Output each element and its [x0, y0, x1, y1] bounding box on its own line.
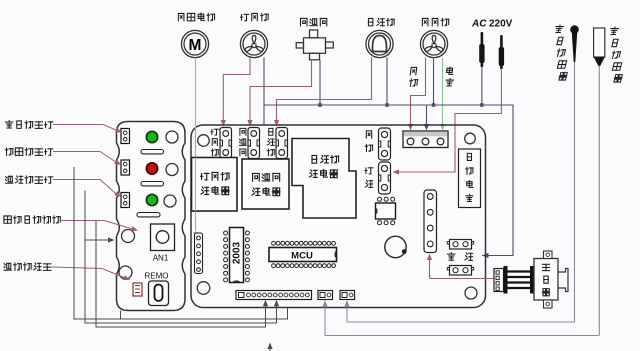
wire: forced-start signal	[96, 221, 266, 328]
LED timer (green)	[146, 131, 157, 142]
hole row2	[166, 164, 178, 176]
wire: green indoor fan capacitor to terminal block	[442, 58, 444, 125]
pipe temperature sensor probe	[594, 28, 605, 57]
wire: red outdoor fan to connector CN1	[223, 58, 250, 121]
vertical header (power)	[424, 190, 437, 253]
wire: red indoor fan live to terminal block	[411, 58, 426, 125]
connector CN2 四通阀 with label	[240, 128, 246, 135]
buzzer	[385, 236, 406, 257]
wire: room sensor return to connector B	[347, 301, 575, 322]
transformer right bracket	[558, 269, 568, 292]
label: 风机 vertical	[410, 67, 417, 74]
indoor fan icon 内风机	[420, 30, 447, 57]
connector CN3 压缩机 with label	[269, 128, 273, 135]
wire: navy bus drop to terminal block	[426, 105, 428, 125]
transformer winding bars	[504, 266, 508, 294]
bottom long header	[236, 291, 312, 300]
transformer bottom tab	[544, 300, 553, 308]
display board outline (scalloped)	[117, 122, 186, 311]
hole bottom-left	[119, 266, 132, 279]
svg-text:REMO: REMO	[145, 272, 169, 281]
label: four-way valve 四通阀	[300, 18, 307, 25]
svg-text:MCU: MCU	[291, 251, 313, 262]
connector 零线 upper	[450, 240, 472, 250]
switch SW2	[121, 160, 130, 175]
svg-text:220V: 220V	[489, 19, 513, 30]
label: 电容 vertical	[446, 67, 454, 74]
transformer body 变压器	[534, 259, 558, 301]
label 零线	[447, 253, 455, 261]
hole row1	[166, 131, 178, 143]
switch SW1	[121, 129, 130, 144]
transformer primary connector	[494, 269, 504, 292]
cut-off wire arrow at bottom edge	[269, 348, 271, 351]
wire: green overlay through relay1	[195, 158, 197, 212]
wire: navy AC neutral to bus	[481, 66, 483, 105]
wire: display signal B	[85, 191, 277, 324]
LED run (green)	[146, 194, 157, 205]
wire: red transformer primary	[430, 278, 495, 280]
slot bar 2	[141, 182, 164, 186]
room temperature sensor probe	[570, 25, 579, 34]
relay 四通阀继电器	[242, 159, 289, 209]
wire: pipe sensor return to connector A	[325, 301, 599, 336]
wire: navy neutral bus	[264, 105, 513, 256]
IR receiver window	[149, 281, 169, 306]
remote receiver component (red)	[133, 283, 142, 296]
wire: room sensor down	[574, 62, 576, 322]
wire: red AC live to 火线 connector	[396, 68, 501, 172]
mounting holes main board	[198, 135, 210, 147]
AC plug 1 (neutral)	[479, 32, 484, 67]
junction dots on neutral bus	[318, 103, 322, 107]
wire: green overlay segment	[195, 124, 197, 232]
svg-text:2003: 2003	[232, 241, 243, 264]
label 定时指示灯 + leader	[5, 121, 12, 128]
wire: navy four-way valve neutral to bus	[319, 60, 321, 105]
label: fan motor 风扇电机	[178, 13, 184, 20]
wire: red compressor to connector CN3	[277, 57, 372, 121]
wire: pipe sensor down	[598, 66, 600, 336]
terminal block (indoor fan)	[403, 131, 448, 148]
label 运行指示灯 + leader	[5, 176, 12, 183]
wire: display signal A	[74, 167, 288, 319]
label: pipe temp sensor 管温传感器	[609, 27, 618, 34]
bottom 2-pin connector A	[318, 291, 333, 300]
IC MCU	[269, 248, 337, 262]
AC plug 2 (live)	[499, 35, 504, 69]
wire: display board drop	[120, 311, 122, 320]
connector 风机 with label	[366, 131, 371, 138]
5-pin header (to display board, green wire)	[195, 233, 203, 274]
IC 2003 driver	[230, 228, 244, 283]
wire: navy compressor neutral to bus	[386, 57, 388, 105]
wire: navy indoor fan neutral to bus	[433, 58, 435, 105]
label: indoor fan 内风机	[422, 18, 428, 25]
connector 火线 with label	[365, 168, 373, 174]
hole row3	[164, 195, 176, 207]
fan motor M (风扇电机)	[181, 30, 208, 57]
connector CN1 外风机 with label	[211, 129, 219, 135]
label 遥控接收头 + leader	[4, 263, 11, 270]
hole left of AN1	[122, 230, 135, 243]
label 制热指示灯 + leader	[5, 148, 13, 155]
label: compressor 压缩机	[368, 18, 372, 25]
svg-text:AN1: AN1	[153, 254, 169, 263]
label: outdoor fan 外风机	[241, 14, 249, 20]
bottom 2-pin connector B	[340, 291, 355, 300]
svg-text:M: M	[189, 37, 202, 54]
label 强制启动按钮 + leader	[4, 216, 11, 223]
outdoor fan icon 外风机	[240, 30, 267, 57]
main control board outline	[191, 125, 486, 308]
slot bar 3	[137, 213, 160, 217]
compressor icon 压缩机	[366, 30, 393, 57]
slot bar 1	[141, 150, 164, 154]
start capacitor 启动电容 box	[459, 149, 481, 208]
relay 压缩机继电器 (stepped shape)	[292, 139, 356, 219]
wire: stub arrow into display board	[85, 239, 111, 241]
IC DIP-8	[376, 203, 396, 219]
svg-text:AC: AC	[471, 19, 487, 30]
switch SW3	[121, 193, 130, 208]
wire: navy outdoor fan neutral down to board	[263, 58, 265, 125]
transformer top tab	[544, 251, 553, 259]
wire: red four-way valve to connector CN2	[250, 60, 312, 121]
relay 外风机继电器	[192, 158, 238, 212]
button AN1	[151, 224, 175, 251]
LED heat (red)	[146, 163, 157, 174]
label: room temp sensor 室温传感器	[554, 25, 563, 32]
four-way valve symbol 四通阀	[296, 30, 333, 60]
wire: green from motor M down to display header	[195, 58, 197, 232]
connector 零线 lower	[450, 266, 472, 276]
